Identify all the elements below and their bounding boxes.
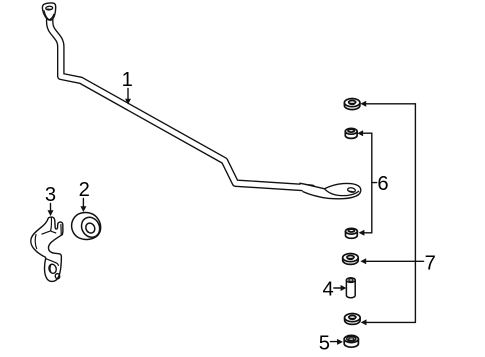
svg-text:6: 6 — [377, 173, 388, 195]
svg-text:4: 4 — [322, 279, 333, 301]
svg-text:1: 1 — [122, 69, 133, 91]
svg-text:2: 2 — [79, 179, 90, 201]
svg-text:5: 5 — [319, 333, 330, 355]
svg-text:7: 7 — [425, 252, 436, 274]
svg-text:3: 3 — [45, 184, 56, 206]
